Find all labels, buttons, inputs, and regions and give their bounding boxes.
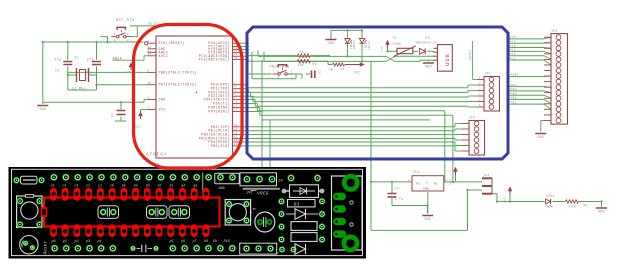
svg-text:p6: p6 — [181, 239, 185, 243]
svg-text:R4: R4 — [584, 203, 588, 207]
svg-text:YELLO: YELLO — [368, 41, 371, 50]
svg-text:RESET: RESET — [469, 50, 472, 60]
svg-text:C5: C5 — [318, 70, 321, 74]
svg-text:LED1: LED1 — [546, 194, 555, 198]
svg-text:b5: b5 — [122, 183, 126, 187]
svg-text:12: 12 — [234, 105, 238, 108]
svg-text:4: 4 — [234, 89, 236, 92]
svg-text:3: 3 — [278, 71, 280, 74]
svg-text:R3: R3 — [341, 68, 345, 71]
svg-text:JP3: JP3 — [551, 29, 558, 33]
svg-text:2: 2 — [234, 82, 236, 85]
svg-text:C2: C2 — [55, 70, 60, 74]
svg-text:p3: p3 — [86, 239, 90, 243]
svg-text:R2: R2 — [313, 62, 318, 66]
svg-text:b2: b2 — [158, 183, 162, 187]
svg-text:a5: a5 — [193, 183, 197, 187]
svg-text:18: 18 — [234, 139, 238, 142]
svg-text:FUSE: FUSE — [393, 42, 402, 46]
svg-text:p5: p5 — [170, 239, 174, 243]
svg-text:15: 15 — [234, 128, 238, 131]
svg-text:PB1: PB1 — [511, 100, 517, 104]
svg-text:16: 16 — [234, 132, 238, 135]
svg-text:C4: C4 — [395, 187, 399, 191]
svg-text:VCC: VCC — [159, 108, 166, 112]
svg-text:c4: c4 — [62, 183, 66, 187]
svg-text:PC6(/RESET): PC6(/RESET) — [159, 41, 185, 45]
svg-text:GND: GND — [425, 64, 432, 68]
svg-text:PB7(XTAL2/TOSC2): PB7(XTAL2/TOSC2) — [159, 83, 197, 87]
svg-text:F1: F1 — [393, 36, 397, 40]
svg-text:c1: c1 — [98, 183, 102, 187]
svg-text:1: 1 — [127, 33, 129, 36]
svg-text:C3: C3 — [111, 113, 114, 117]
svg-text:p1: p1 — [63, 239, 67, 243]
svg-text:VCC: VCC — [354, 71, 361, 75]
svg-text:+: + — [426, 181, 428, 185]
svg-text:p0: p0 — [52, 239, 56, 243]
svg-text:19: 19 — [234, 143, 238, 146]
svg-text:20: 20 — [148, 53, 152, 56]
svg-text:3V3: 3V3 — [224, 240, 230, 244]
svg-text:+5V: +5V — [381, 46, 384, 52]
svg-text:USB: USB — [444, 53, 451, 66]
svg-text:p2: p2 — [75, 239, 79, 243]
svg-text:2: 2 — [127, 39, 129, 42]
svg-text:p4: p4 — [98, 239, 102, 243]
svg-text:RST_BTN: RST_BTN — [116, 19, 135, 23]
svg-text:2: 2 — [291, 76, 293, 79]
svg-text:PB6(XTAL1/TOSC1): PB6(XTAL1/TOSC1) — [159, 70, 197, 74]
svg-text:c2: c2 — [86, 183, 90, 187]
svg-text:27p: 27p — [54, 58, 61, 62]
svg-text:JP1: JP1 — [485, 72, 492, 76]
svg-text:c3: c3 — [74, 183, 78, 187]
svg-text:3: 3 — [234, 86, 236, 89]
svg-text:11: 11 — [234, 101, 238, 104]
svg-text:c5: c5 — [51, 183, 55, 187]
svg-text:PD7(AIN1): PD7(AIN1) — [208, 110, 230, 114]
svg-text:4.7u: 4.7u — [395, 197, 404, 201]
svg-text:io: io — [276, 251, 280, 255]
svg-text:b1: b1 — [170, 183, 174, 187]
svg-text:VO: VO — [434, 182, 438, 185]
svg-text:14: 14 — [234, 124, 238, 127]
svg-text:GND: GND — [159, 97, 166, 101]
svg-text:1: 1 — [291, 71, 293, 74]
svg-text:PC0: PC0 — [510, 56, 516, 60]
svg-text:MBRX0543-3T: MBRX0543-3T — [416, 42, 438, 45]
svg-text:GND: GND — [39, 107, 46, 111]
svg-text:8: 8 — [148, 96, 150, 99]
svg-text:AVCC: AVCC — [159, 54, 169, 58]
svg-text:GND: GND — [328, 41, 335, 45]
svg-text:GND: GND — [219, 187, 225, 191]
svg-text:3V3: 3V3 — [247, 191, 253, 195]
svg-text:Reset: Reset — [45, 241, 49, 255]
svg-text:b0: b0 — [204, 239, 208, 243]
svg-text:5V: 5V — [279, 179, 284, 183]
svg-text:VCC: VCC — [504, 197, 507, 203]
svg-text:PB2: PB2 — [511, 96, 517, 100]
svg-text:b3: b3 — [146, 183, 150, 187]
svg-text:4: 4 — [278, 76, 280, 79]
svg-text:a4: a4 — [181, 183, 185, 187]
svg-text:VI: VI — [416, 182, 420, 185]
svg-text:10: 10 — [148, 82, 152, 85]
svg-text:GND: GND — [598, 209, 605, 213]
svg-text:PC5(ADC5/SCL): PC5(ADC5/SCL) — [199, 57, 230, 61]
svg-text:AREF: AREF — [511, 72, 519, 76]
svg-text:GND: GND — [537, 135, 544, 139]
svg-text:28: 28 — [234, 56, 238, 59]
svg-text:c0: c0 — [110, 183, 114, 187]
svg-text:9: 9 — [148, 69, 150, 72]
svg-text:10K: 10K — [298, 63, 305, 67]
svg-text:330R: 330R — [568, 205, 576, 209]
svg-text:Q1: Q1 — [75, 55, 80, 59]
svg-text:4: 4 — [114, 39, 116, 42]
svg-text:13: 13 — [234, 109, 238, 112]
svg-text:3V3: 3V3 — [449, 179, 452, 185]
svg-text:R1: R1 — [300, 50, 305, 54]
svg-text:PB5(SCK): PB5(SCK) — [211, 144, 230, 148]
svg-text:ATMEGA: ATMEGA — [146, 152, 167, 158]
svg-text:AREF: AREF — [113, 57, 123, 61]
svg-text:VREG: VREG — [257, 192, 269, 197]
svg-text:JP4: JP4 — [483, 173, 490, 177]
svg-text:R3: R3 — [294, 204, 300, 208]
svg-text:GND: GND — [424, 217, 431, 221]
svg-text:1K: 1K — [329, 68, 333, 72]
svg-text:6: 6 — [234, 96, 236, 99]
svg-text:12 MHz: 12 MHz — [72, 88, 87, 92]
svg-text:JP2: JP2 — [469, 116, 476, 120]
svg-text:7: 7 — [148, 106, 150, 109]
svg-text:D3: D3 — [426, 36, 430, 40]
svg-text:GND: GND — [423, 188, 429, 191]
svg-text:IC2: IC2 — [413, 170, 420, 174]
svg-text:3: 3 — [114, 33, 116, 36]
svg-text:p7: p7 — [193, 239, 197, 243]
svg-text:b4: b4 — [134, 183, 138, 187]
svg-text:GREEN: GREEN — [353, 40, 356, 49]
